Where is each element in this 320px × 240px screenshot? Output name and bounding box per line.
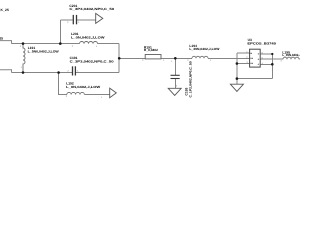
capacitor C201 plates — [73, 15, 76, 24]
wire top rail left — [12, 43, 80, 45]
node dot L191 bottom — [22, 71, 25, 74]
wire U3 pin1 to ground net — [237, 52, 250, 54]
svg-text:1: 1 — [210, 59, 212, 62]
node dot C193 branch — [174, 57, 177, 60]
wire riser to C201 branch — [59, 20, 61, 44]
inductor L192 coil — [67, 92, 85, 94]
node dot gnd vertical pin3 — [236, 62, 239, 65]
svg-text:L_5N6,0402,J,LOW: L_5N6,0402,J,LOW — [28, 50, 59, 54]
port arrow bottom (L192 output) — [110, 88, 117, 98]
wire L195 tail — [299, 58, 300, 60]
wire top rail right of L201 — [98, 43, 120, 45]
wire L192 to port — [84, 94, 109, 96]
node dot riser C201 — [59, 42, 62, 45]
svg-text:1: 1 — [163, 59, 165, 62]
inductor L201 coil — [80, 42, 98, 44]
svg-text:2: 2 — [281, 60, 283, 63]
svg-text:1: 1 — [96, 45, 98, 48]
svg-text:1: 1 — [101, 96, 103, 99]
node dot L192 branch — [57, 71, 60, 74]
svg-text:1: 1 — [171, 60, 173, 63]
svg-text:L_39N,0402,J,LOW: L_39N,0402,J,LOW — [189, 47, 219, 51]
IC U3 box EPCOS_B3749 — [250, 49, 261, 67]
svg-text:1: 1 — [21, 66, 23, 69]
wire C193 to ground — [174, 79, 176, 88]
svg-text:L_39N,0402,J,LOW: L_39N,0402,J,LOW — [282, 53, 300, 57]
wire C191 right — [76, 72, 119, 74]
port arrow top (C201 output) — [96, 13, 103, 23]
node dot gnd loop left — [236, 77, 239, 80]
svg-text:25: 25 — [0, 36, 3, 40]
wire right ground vertical x=272.3 — [271, 54, 273, 79]
ground symbol under C193 — [168, 88, 181, 95]
wire L192 branch down — [59, 73, 67, 95]
wire C201 right to port — [77, 19, 96, 21]
inductor L194 coil — [192, 56, 208, 58]
wire ground loop bottom — [237, 78, 272, 80]
wire mid rail — [12, 72, 72, 74]
wire U3 pin6 right — [260, 53, 272, 55]
wire R191 to L194 — [161, 57, 192, 59]
wire riser x=119.2 between rails — [118, 44, 120, 73]
svg-text:_K_25: _K_25 — [0, 8, 9, 12]
wire C201 left — [60, 19, 72, 21]
svg-text:1: 1 — [77, 69, 79, 72]
node dot L191 top — [22, 42, 25, 45]
node dot right vertical top — [271, 53, 273, 55]
wire U3 pin5 to L195 — [260, 58, 283, 60]
wire bottom-left stub — [0, 70, 12, 73]
node dot main node x=119.2 — [118, 57, 121, 60]
svg-text:2: 2 — [72, 45, 74, 48]
node dot right vertical pin4 — [271, 63, 274, 66]
svg-text:2: 2 — [142, 59, 144, 62]
svg-text:2: 2 — [176, 84, 178, 87]
resistor R191 body — [145, 55, 161, 59]
svg-text:L_0N,0402,J,LOW: L_0N,0402,J,LOW — [66, 85, 100, 89]
svg-text:C_1P2,0402,NP0,C_50: C_1P2,0402,NP0,C_50 — [188, 61, 192, 98]
wire main rail to R191 — [119, 57, 145, 59]
inductor L195 coil — [283, 57, 299, 59]
wire ground vertical x=236.9 — [236, 53, 238, 84]
svg-text:L_0N,0402,J,LOW: L_0N,0402,J,LOW — [71, 36, 105, 40]
junction dots — [22, 42, 274, 80]
net stub wire top-left — [0, 41, 12, 44]
svg-text:2: 2 — [67, 21, 69, 24]
wire U3 pin4 right — [260, 63, 272, 65]
svg-text:R_0,0402: R_0,0402 — [144, 48, 158, 52]
capacitor C193 plates — [171, 75, 180, 78]
svg-text:2: 2 — [20, 45, 22, 48]
wire L194 to U3 pin2 — [208, 57, 250, 59]
svg-text:1: 1 — [78, 21, 80, 24]
svg-text:EPCOS_B3749: EPCOS_B3749 — [247, 42, 276, 46]
svg-text:C_3P3,0402,NP0,C_50: C_3P3,0402,NP0,C_50 — [69, 7, 114, 11]
svg-text:C_3P3,0402,NP0,C_50: C_3P3,0402,NP0,C_50 — [70, 59, 114, 63]
inductor L191 coil (vertical) — [23, 44, 25, 73]
U3 internal pin-name marks — [250, 52, 259, 66]
wire U3 pin3 to ground net — [237, 63, 250, 65]
svg-text:2: 2 — [68, 69, 70, 72]
capacitor C191 plates — [73, 66, 76, 75]
svg-text:2: 2 — [66, 95, 68, 98]
ground symbol under U3 — [230, 84, 243, 91]
wire C193 branch down — [174, 58, 176, 75]
